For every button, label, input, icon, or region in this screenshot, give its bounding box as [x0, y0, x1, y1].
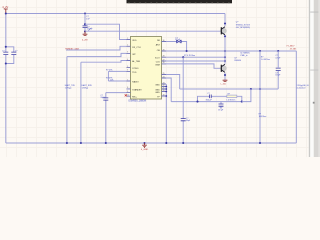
wire VBAT top rail y=13.5 [6, 13, 225, 15]
wire to loop left [171, 101, 197, 103]
svg-text:C?: C? [207, 93, 209, 95]
svg-text:GSM900_1800M: GSM900_1800M [128, 100, 146, 102]
svg-text:R?: R? [259, 114, 261, 116]
wire to IC pin 1 [85, 24, 127, 39]
svg-text:R?: R? [261, 56, 263, 58]
svg-text:C?: C? [275, 55, 277, 57]
wire loop right to y=89 net [242, 89, 251, 102]
node junction rail x=66.9 [66, 142, 68, 144]
capacitor C1 (left pair) [5, 52, 7, 54]
svg-text:TDD: TDD [132, 72, 137, 74]
svg-text:C?: C? [275, 73, 277, 75]
capacitor C8 in loop top [210, 96, 211, 98]
node terminal dot Q2 emitter [224, 74, 226, 76]
wire vertical x=66.9 to GND rail [66, 57, 68, 143]
node junction y=51 x=225 [224, 50, 226, 52]
node terminal dot Q1 emitter [224, 35, 226, 37]
wire long net y=51 [166, 50, 296, 52]
wire to IC pin 6 [108, 70, 126, 72]
wire PWRKEY to IC pin 2 [66, 46, 127, 50]
wire to IC pin 3 [67, 53, 127, 56]
power port at x=225 (L_GND) [223, 80, 228, 81]
node junction y=57.2 x=183.2 [182, 56, 184, 58]
wire right vertical x=296.3 [295, 51, 297, 143]
svg-text:GND: GND [155, 92, 160, 94]
svg-text:R? 4.7KOhm: R? 4.7KOhm [184, 55, 196, 57]
svg-text:18 pF: 18 pF [275, 75, 281, 77]
svg-text:VDD: VDD [132, 40, 137, 42]
wire to IC pin 7 [108, 80, 126, 82]
svg-text:GND: GND [155, 89, 160, 91]
node junction rail x=80.9 [80, 142, 82, 144]
wire to IC pin 9 [106, 92, 127, 94]
wire left rail x=5.8 [5, 14, 7, 144]
svg-text:C?: C? [186, 118, 188, 120]
node junction y=57.2 x=225 [224, 56, 226, 58]
svg-text:C?: C? [2, 51, 4, 53]
node junction rail corner [5, 12, 7, 14]
wire vertical x=105.8 to GND rail [105, 93, 107, 143]
svg-text:1.0 MOhm: 1.0 MOhm [226, 100, 235, 102]
wire vertical x=166.3 to rail [165, 84, 167, 143]
svg-text:Q?: Q? [234, 57, 237, 59]
capacitor C3 on x=85 [84, 26, 86, 27]
capacitor C6 on x=183.2 [182, 119, 184, 120]
node junction rail x=260 [259, 142, 261, 144]
node loop left junction [196, 101, 198, 103]
dark toolbar fragment [127, 0, 233, 3]
wire Q2 collector vertical [224, 51, 226, 64]
wire branch x=85 down [84, 14, 86, 32]
svg-text:GND: GND [155, 84, 160, 86]
IC U1 GSM module [131, 37, 162, 100]
capacitor C7 on x=278.2 [276, 68, 281, 70]
node junction y=89 x=260 [259, 88, 261, 90]
node junction y=51 x=278.2 [277, 50, 279, 52]
svg-text:MIC+: MIC+ [132, 96, 138, 98]
capacitor C2 (right pair) [13, 52, 15, 54]
wire Q2 emitter down [224, 73, 226, 80]
wire vertical x=260 to rail [259, 51, 261, 143]
IC pin leads [127, 40, 167, 97]
node junction y=61 x=225 [224, 60, 226, 62]
svg-text:GSM: GSM [155, 65, 160, 67]
svg-text:4_2M: 4_2M [82, 39, 88, 41]
svg-text:4.7uF: 4.7uF [275, 57, 281, 59]
TVS diode D1 [177, 40, 182, 43]
wire C7 to net y=51 [277, 51, 279, 68]
node loop right junction [241, 101, 243, 103]
svg-text:C?: C? [87, 27, 89, 29]
node junction left rail / cap branch bottom [5, 62, 7, 64]
ground port S_GND bottom rail [144, 142, 146, 144]
wire IC pin to TVS corner [166, 42, 187, 52]
svg-text:B_IO: B_IO [155, 58, 160, 60]
node junction rail x=105.8 [105, 142, 107, 144]
node junction x=85 y=31.5 [84, 30, 86, 32]
resistor R5 in loop top [227, 95, 237, 98]
wire net y=89 [180, 88, 279, 90]
wire cap branch loop [6, 47, 14, 64]
svg-text:VT_4B1V: VT_4B1V [286, 45, 295, 47]
svg-text:10KOhm: 10KOhm [259, 116, 267, 118]
svg-text:L_100: L_100 [221, 84, 226, 86]
svg-text:RX_CTL#: RX_CTL# [132, 47, 142, 49]
power port at x=85 (4_2M) [83, 32, 88, 36]
wire up to C7 [277, 71, 279, 89]
svg-text:4.7uF: 4.7uF [175, 39, 181, 41]
wire net y=61 [166, 60, 225, 62]
wire IC pin to RC loop [166, 78, 171, 102]
wire bottom GND rail y=143 [6, 142, 297, 144]
node junction rail x=183.2 [182, 142, 184, 144]
node junction y=89 x=250.9 [250, 88, 252, 90]
svg-text:R? 47K: R? 47K [106, 77, 113, 79]
wire vertical x=183.2 to rail [182, 57, 184, 143]
svg-text:CLK: CLK [156, 62, 161, 64]
node junction VBAT rail x=85 [84, 12, 86, 14]
node junction y=51 x=186.6 [186, 50, 188, 52]
svg-text:18 pF: 18 pF [218, 110, 224, 112]
svg-text:SS8050: SS8050 [234, 60, 241, 62]
capacitor C5 on x=105.8 [105, 98, 107, 99]
svg-text:Q?: Q? [236, 22, 239, 24]
svg-text:40V_NPN(SMD): 40V_NPN(SMD) [236, 27, 250, 29]
no-ERC marker red X [125, 94, 127, 96]
svg-text:PWRKEY_GSM: PWRKEY_GSM [65, 48, 79, 50]
power port 4.2V top-left [4, 9, 8, 14]
wire to IC pin 4 [81, 61, 127, 63]
wire collector Q1 from rail [224, 14, 226, 27]
svg-text:820 pF: 820 pF [206, 100, 213, 102]
svg-text:4V_BB: 4V_BB [290, 48, 297, 50]
wire stub to C9 [220, 102, 222, 104]
node junction x=85 y=24.2 [84, 23, 86, 25]
wire vertical x=80.9 to GND rail [80, 62, 82, 143]
svg-text:R?: R? [228, 94, 230, 96]
wire vertical x=108.4 [107, 71, 109, 81]
svg-text:C?: C? [86, 16, 88, 18]
svg-text:C?: C? [15, 51, 17, 53]
wire loop top branch [198, 96, 242, 101]
svg-text:C?: C? [220, 107, 222, 109]
polarity arrow capacitor C4 [88, 28, 91, 31]
node junction rail x=166.3 [165, 142, 167, 144]
svg-text:STDIO: STDIO [132, 68, 139, 70]
wire loop bottom branch [198, 101, 242, 103]
svg-text:SS8050_SOT23: SS8050_SOT23 [236, 24, 250, 26]
wire net y=57.2 [166, 56, 225, 58]
wire IC pin to y=89 net [166, 75, 180, 90]
node junction left rail / cap branch top [5, 46, 7, 48]
node junction y=51 x=260 [259, 50, 261, 52]
svg-text:4_GND: 4_GND [141, 149, 149, 151]
wire C9 tail [220, 106, 222, 108]
transistor Q2 [221, 65, 227, 71]
wire emitter Q1 down [224, 35, 226, 51]
svg-text:1.0 MOhm: 1.0 MOhm [261, 59, 270, 61]
wire base net to Q2 [166, 64, 221, 68]
transistor Q1 [221, 28, 227, 34]
svg-text:32.768KHz: 32.768KHz [240, 53, 250, 55]
wire base net y=31.2 to Q1 [85, 30, 221, 32]
scrollbar right [309, 0, 320, 157]
node terminal dot Q1 collector [224, 22, 226, 24]
